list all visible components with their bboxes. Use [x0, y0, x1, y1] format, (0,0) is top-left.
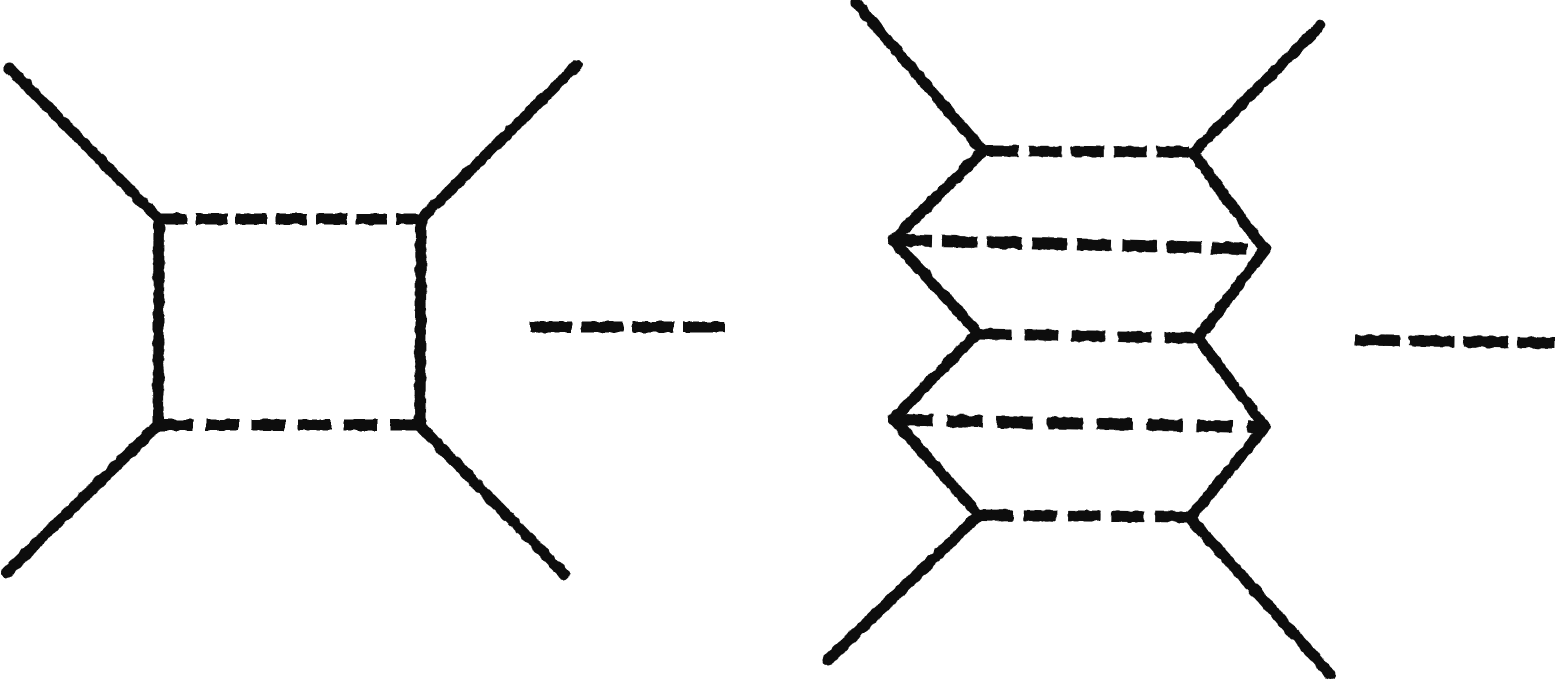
chain diagram: left solid segment 2	[893, 240, 978, 333]
chain diagram: right solid segment 4	[1190, 427, 1265, 518]
chain diagram: right solid segment 2	[1198, 250, 1265, 338]
chain diagram: external leg upper-right	[1193, 26, 1320, 153]
chain diagram: right solid segment 3	[1198, 338, 1265, 427]
chain diagram: top dashed rung	[986, 151, 1189, 152]
chain diagram: left solid segment 1	[893, 151, 983, 240]
box diagram: bottom dashed edge	[160, 420, 421, 431]
chain diagram: right solid segment 1	[1193, 153, 1265, 250]
dashed propagator after box diagram	[530, 322, 726, 333]
box diagram: left solid side	[158, 219, 159, 425]
chain diagram: left solid segment 3	[893, 333, 978, 419]
chain diagram: external leg lower-right	[1190, 518, 1330, 674]
dashed propagator after chain diagram	[1355, 340, 1555, 343]
box diagram: top dashed edge	[156, 214, 425, 225]
box diagram: external leg lower-right	[420, 426, 564, 574]
chain diagram: left solid segment 4	[893, 419, 979, 515]
box diagram: right solid side	[420, 219, 421, 426]
chain diagram: bottom dashed rung	[980, 515, 1188, 517]
chain diagram: external leg lower-left	[828, 515, 979, 660]
chain diagram: external leg upper-left	[856, 3, 983, 151]
chain diagram: upper long dashed rung	[897, 240, 1262, 249]
box diagram: external leg upper-left	[9, 68, 159, 219]
box diagram: external leg upper-right	[421, 65, 577, 219]
box diagram: external leg lower-left	[7, 425, 158, 572]
chain diagram: middle dashed rung	[978, 334, 1198, 338]
chain diagram: lower long dashed rung	[897, 420, 1262, 427]
